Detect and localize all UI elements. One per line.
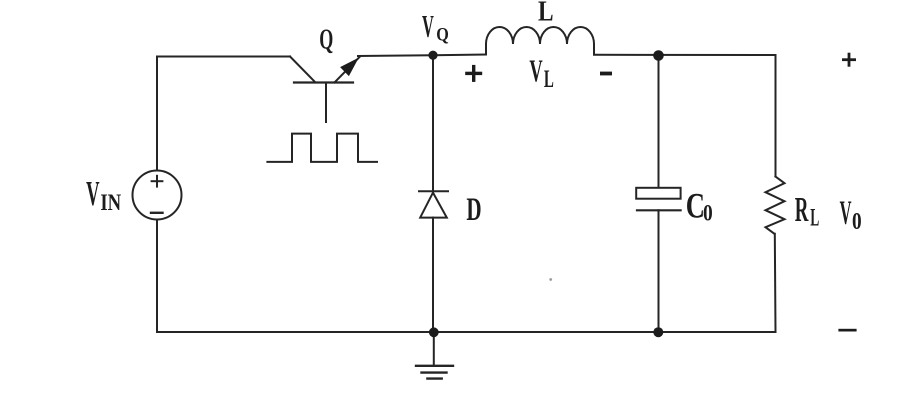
svg-text:L: L <box>544 67 554 94</box>
svg-text:L: L <box>538 0 554 27</box>
svg-text:IN: IN <box>100 189 121 216</box>
svg-text:V: V <box>422 8 434 44</box>
svg-text:L: L <box>810 204 819 232</box>
svg-text:V: V <box>840 193 852 231</box>
svg-text:Q: Q <box>436 23 449 45</box>
svg-text:R: R <box>795 191 809 230</box>
svg-text:C: C <box>686 185 705 225</box>
svg-text:D: D <box>466 190 481 227</box>
svg-text:V: V <box>529 53 542 88</box>
svg-text:0: 0 <box>703 200 713 226</box>
svg-text:Q: Q <box>319 25 333 56</box>
svg-text:0: 0 <box>852 207 862 235</box>
svg-text:V: V <box>86 174 99 213</box>
